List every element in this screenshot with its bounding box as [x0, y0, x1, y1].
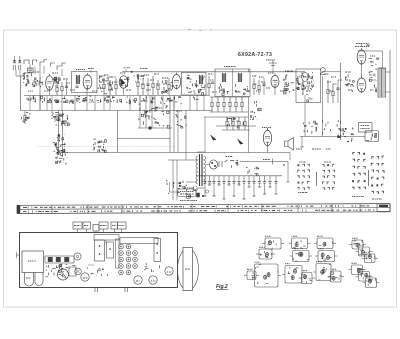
padder cluster: [175, 115, 186, 128]
components after B2: [98, 77, 113, 94]
AGC rail vertical 2: [169, 96, 171, 153]
resistor PSU1: [217, 97, 219, 112]
fragment Fb1: [289, 238, 311, 249]
fragment Ff2: [299, 273, 316, 284]
long wire top bus: [133, 71, 305, 73]
B3 electrodes: [120, 77, 129, 87]
resistor R13: [152, 76, 154, 95]
wire between tubes: [361, 64, 363, 78]
resistor PSU5: [241, 97, 243, 112]
vertical rail x340: [340, 63, 342, 140]
label under G4: [372, 198, 382, 200]
dial drive strip: [47, 264, 87, 269]
fragment Fa1: [262, 238, 284, 249]
trimmer panel: [116, 239, 120, 268]
vert x174: [173, 96, 175, 153]
switch S3 step: [57, 63, 66, 70]
psu mid cluster: [246, 167, 259, 176]
capacitor C30: [336, 88, 339, 89]
wire B1 cathode: [49, 90, 51, 95]
row parts mid: [126, 96, 154, 104]
tube B5 output: [357, 48, 366, 65]
coil L1 ferrite: [28, 68, 34, 73]
IF transformer box S6: [72, 72, 98, 93]
phono input cluster: [166, 180, 185, 194]
S9 contents: [299, 73, 314, 102]
osc lower wires: [139, 96, 141, 129]
resistor R21: [253, 78, 255, 95]
IF can tall rect right: [154, 239, 161, 262]
resistor R26: [302, 80, 304, 95]
wire down from top: [272, 63, 274, 72]
label above ground: [266, 59, 275, 61]
resistor R9: [115, 78, 117, 95]
svg-text:6X92A-72-73: 6X92A-72-73: [238, 52, 272, 58]
label under G3: [352, 196, 364, 198]
switch S2 step: [40, 60, 47, 67]
resistor R8: [109, 80, 111, 95]
socket grid G3: [352, 152, 366, 189]
ground top mid: [269, 60, 277, 66]
S8 right caps: [235, 84, 249, 94]
components left of B6: [345, 74, 354, 91]
chassis feet: [94, 288, 96, 292]
small parts: [134, 75, 144, 80]
T1 primary winding: [196, 156, 198, 160]
psu top wire: [210, 96, 248, 98]
osc components left: [162, 80, 173, 94]
wire left rail: [20, 76, 22, 111]
heater drop right: [287, 162, 289, 183]
resistor left drop: [24, 111, 26, 124]
chassis left tab: [17, 254, 20, 256]
volume control cluster: [284, 74, 300, 94]
fragment Fh3: [363, 278, 380, 288]
bus verticals: [39, 96, 41, 111]
B8 to bus: [267, 146, 269, 153]
resistor PSU2: [223, 97, 225, 112]
label B2 top: [88, 68, 94, 70]
arrow + label top: [122, 71, 133, 73]
S8 left caps: [218, 84, 229, 96]
fragment Fh1: [349, 265, 366, 275]
osc coil b: [201, 75, 204, 84]
osc coil a: [198, 75, 201, 84]
electrolytic drops: [204, 176, 206, 182]
resistor R7: [103, 78, 105, 95]
label heater: [263, 159, 270, 161]
fragment Fe1: [252, 264, 282, 287]
rail x382 top: [382, 51, 384, 68]
antenna A1: [13, 56, 16, 70]
rectifier tube B8: [263, 128, 271, 146]
speaker magnet rect: [183, 248, 193, 291]
small lower connector box: [93, 225, 99, 232]
tube B4 mixer: [172, 73, 180, 90]
mains label box: [178, 189, 197, 197]
tone control cluster: [304, 120, 342, 138]
top wire to rail: [358, 50, 383, 52]
tuning gang strip: [45, 256, 74, 263]
wire to rail: [322, 71, 341, 73]
tuning arrow: [54, 115, 62, 123]
fuse circle: [186, 194, 191, 199]
label B2: [140, 68, 148, 70]
chassis interior wires: [44, 257, 46, 259]
tuning gang section: [58, 111, 60, 153]
coil S8a2: [224, 73, 227, 82]
grid divider line 2: [368, 170, 370, 186]
psu cluster: [227, 117, 244, 128]
wire top bus 2: [248, 69, 250, 72]
speaker ellipse: [178, 249, 199, 291]
coil S8b1: [237, 73, 240, 82]
label and cap above B5: [355, 46, 369, 48]
coil S8b2: [240, 73, 243, 82]
vert x248: [248, 97, 250, 153]
stub end bar: [300, 146, 304, 148]
resistor PSU3: [229, 97, 231, 112]
grid components B1: [54, 77, 61, 84]
antenna A2: [18, 56, 21, 70]
scan specks top: [188, 29, 191, 31]
wire B2 cathode: [86, 87, 88, 95]
resistor R12: [142, 78, 144, 95]
wire B5 top: [361, 44, 363, 47]
AGC rail vertical 1: [117, 111, 119, 153]
osc blob: [148, 126, 151, 129]
curl wire 2-shape: [321, 68, 326, 75]
resistor PSU4: [235, 97, 237, 112]
coil S6b: [78, 75, 81, 84]
heater line: [240, 161, 288, 163]
label S6: [76, 69, 85, 71]
chassis wiring marks 3: [143, 263, 160, 272]
dark arrow 2: [238, 139, 244, 144]
vert rail x40: [39, 66, 41, 111]
strip inside top left: [94, 235, 119, 241]
fragment Fc2: [315, 251, 338, 262]
stub down x302: [301, 137, 303, 148]
fragment Fg1: [313, 264, 334, 281]
diode triangle: [121, 79, 125, 85]
electrolytic can 2: [35, 273, 43, 286]
relay box right: [365, 131, 379, 142]
tube socket circle big: [58, 269, 69, 280]
capacitor C24: [262, 84, 265, 85]
coil core: [77, 76, 79, 85]
main bottom bus: [21, 110, 213, 112]
switch cluster: [93, 139, 106, 152]
vert x305: [304, 95, 306, 137]
chassis wiring marks 1: [46, 269, 65, 277]
HT bus: [196, 175, 282, 177]
IF can rect 1: [95, 240, 105, 261]
fragment Fh2: [356, 272, 373, 282]
capacitor C5: [65, 86, 68, 87]
T1 secondary winding: [204, 156, 206, 160]
psu mid wire: [210, 111, 248, 113]
label above box: [184, 187, 193, 189]
resistor PSU0: [211, 97, 213, 112]
vert x322: [322, 76, 324, 137]
output transformer box: [22, 251, 44, 273]
dark mark left of transformer: [197, 193, 200, 197]
grid divider line: [316, 172, 318, 186]
resistor R28: [327, 80, 329, 103]
resistor R29: [332, 84, 334, 103]
capacitor C20: [211, 82, 214, 83]
speaker symbol: [285, 138, 294, 151]
chassis outline: [20, 233, 178, 288]
fragment Fb2: [290, 251, 313, 262]
hline y152: [118, 152, 291, 154]
tube B6 output: [357, 76, 366, 93]
pulley circle X: [75, 268, 82, 275]
divider in S8: [232, 69, 234, 97]
oscillator coil box S7: [182, 73, 207, 96]
IF can rect 2: [107, 242, 114, 258]
fragment Fa2: [256, 249, 275, 259]
arrow cluster right: [338, 128, 354, 143]
dial scale bar: [17, 204, 390, 214]
osc box contents: [184, 76, 205, 96]
text below box: [180, 200, 197, 202]
fragment Ff1: [282, 266, 305, 284]
chassis top connector boxes: [73, 222, 82, 229]
bottom resistor row: [24, 95, 210, 97]
vline x186: [185, 111, 187, 161]
coil L3 cluster: [34, 77, 43, 87]
fragment Fd2: [356, 247, 373, 256]
coil S6a: [75, 75, 78, 84]
resistor R22: [258, 80, 260, 95]
long bracket inside top: [120, 238, 158, 244]
coil S8a1: [221, 73, 224, 82]
label above arrow: [124, 67, 132, 69]
label 6,3V: [226, 156, 233, 158]
wire tuning to bus: [63, 152, 118, 154]
vert x205: [204, 117, 206, 153]
wire C5: [66, 80, 68, 95]
fragment Fc1: [314, 238, 336, 249]
tube B2 EF89: [83, 73, 92, 90]
mains wires: [170, 182, 178, 192]
vline x290: [289, 153, 291, 161]
tube B1 UCH81: [46, 74, 54, 91]
resistor R3: [56, 84, 58, 95]
osc lower cluster: [139, 104, 170, 128]
fragment Fd3: [362, 254, 379, 263]
left drop parts: [21, 113, 30, 123]
socket grid G4: [371, 156, 384, 194]
fragment Fe2: [244, 271, 259, 280]
output transformer S10: [378, 68, 386, 97]
tube socket circle 2: [81, 273, 89, 281]
chassis left tab 2: [16, 252, 18, 258]
label B8: [262, 127, 271, 129]
dark arrow 1: [211, 135, 217, 140]
right rail: [389, 50, 391, 140]
socket hatch: [59, 271, 67, 279]
tube B4 EABC80: [271, 74, 279, 89]
label above S8: [224, 66, 236, 68]
components right of tubes: [369, 58, 379, 92]
label under G1: [298, 192, 308, 194]
coupling box S9: [296, 69, 321, 103]
hline y138: [118, 138, 171, 140]
capacitor C9: [75, 86, 78, 87]
tuning bottom blob: [55, 150, 68, 164]
chassis wiring marks 2: [91, 269, 108, 276]
small circle right: [205, 190, 208, 193]
S9 inner ellipse: [302, 72, 308, 81]
socket grid G1: [297, 164, 310, 190]
variable cap plates: [54, 116, 59, 118]
label above B5: [356, 43, 367, 45]
psu wire y126: [216, 125, 256, 127]
socket circle 3: [134, 276, 142, 284]
row parts mid2: [161, 97, 199, 105]
switch S1 contacts: [24, 60, 29, 64]
coil L2 cluster: [23, 73, 35, 86]
small rect part: [69, 267, 76, 276]
dotted line: [38, 146, 175, 148]
label box right: [359, 123, 373, 133]
lamp pair: [230, 160, 238, 167]
wire y136: [300, 136, 365, 138]
left vertical rail to chassis: [20, 110, 22, 113]
fragment Fg2: [328, 271, 345, 282]
electrolytic can 1: [25, 273, 34, 287]
transformer connect wires: [186, 159, 197, 161]
resistor R18: [208, 76, 210, 95]
resistor R16: [168, 78, 170, 95]
socket circle 4: [149, 276, 157, 284]
tuning cap C1: [51, 112, 70, 126]
parts on x248 rail: [250, 101, 261, 120]
tube B3 ellipse: [119, 76, 127, 88]
resistor R4: [61, 82, 63, 95]
resistor R11: [137, 74, 139, 95]
fragment Fd1: [349, 240, 366, 249]
socket circle 5: [165, 267, 173, 275]
vert x178: [177, 110, 179, 153]
tuning cap C2 cluster: [53, 134, 66, 155]
IF transformer box S8: [215, 69, 250, 97]
relay contents: [366, 132, 377, 140]
label vol: [285, 70, 293, 72]
socket grid G2: [322, 164, 335, 190]
second resistor row: [204, 116, 248, 118]
switch contacts SK: [219, 160, 228, 167]
power transformer T1 core: [199, 154, 201, 186]
fuse circle F1: [210, 160, 218, 169]
aux cluster: [186, 185, 197, 197]
capacitor C14: [146, 84, 149, 85]
pulley circle: [74, 253, 81, 260]
resistor R14: [157, 80, 159, 95]
